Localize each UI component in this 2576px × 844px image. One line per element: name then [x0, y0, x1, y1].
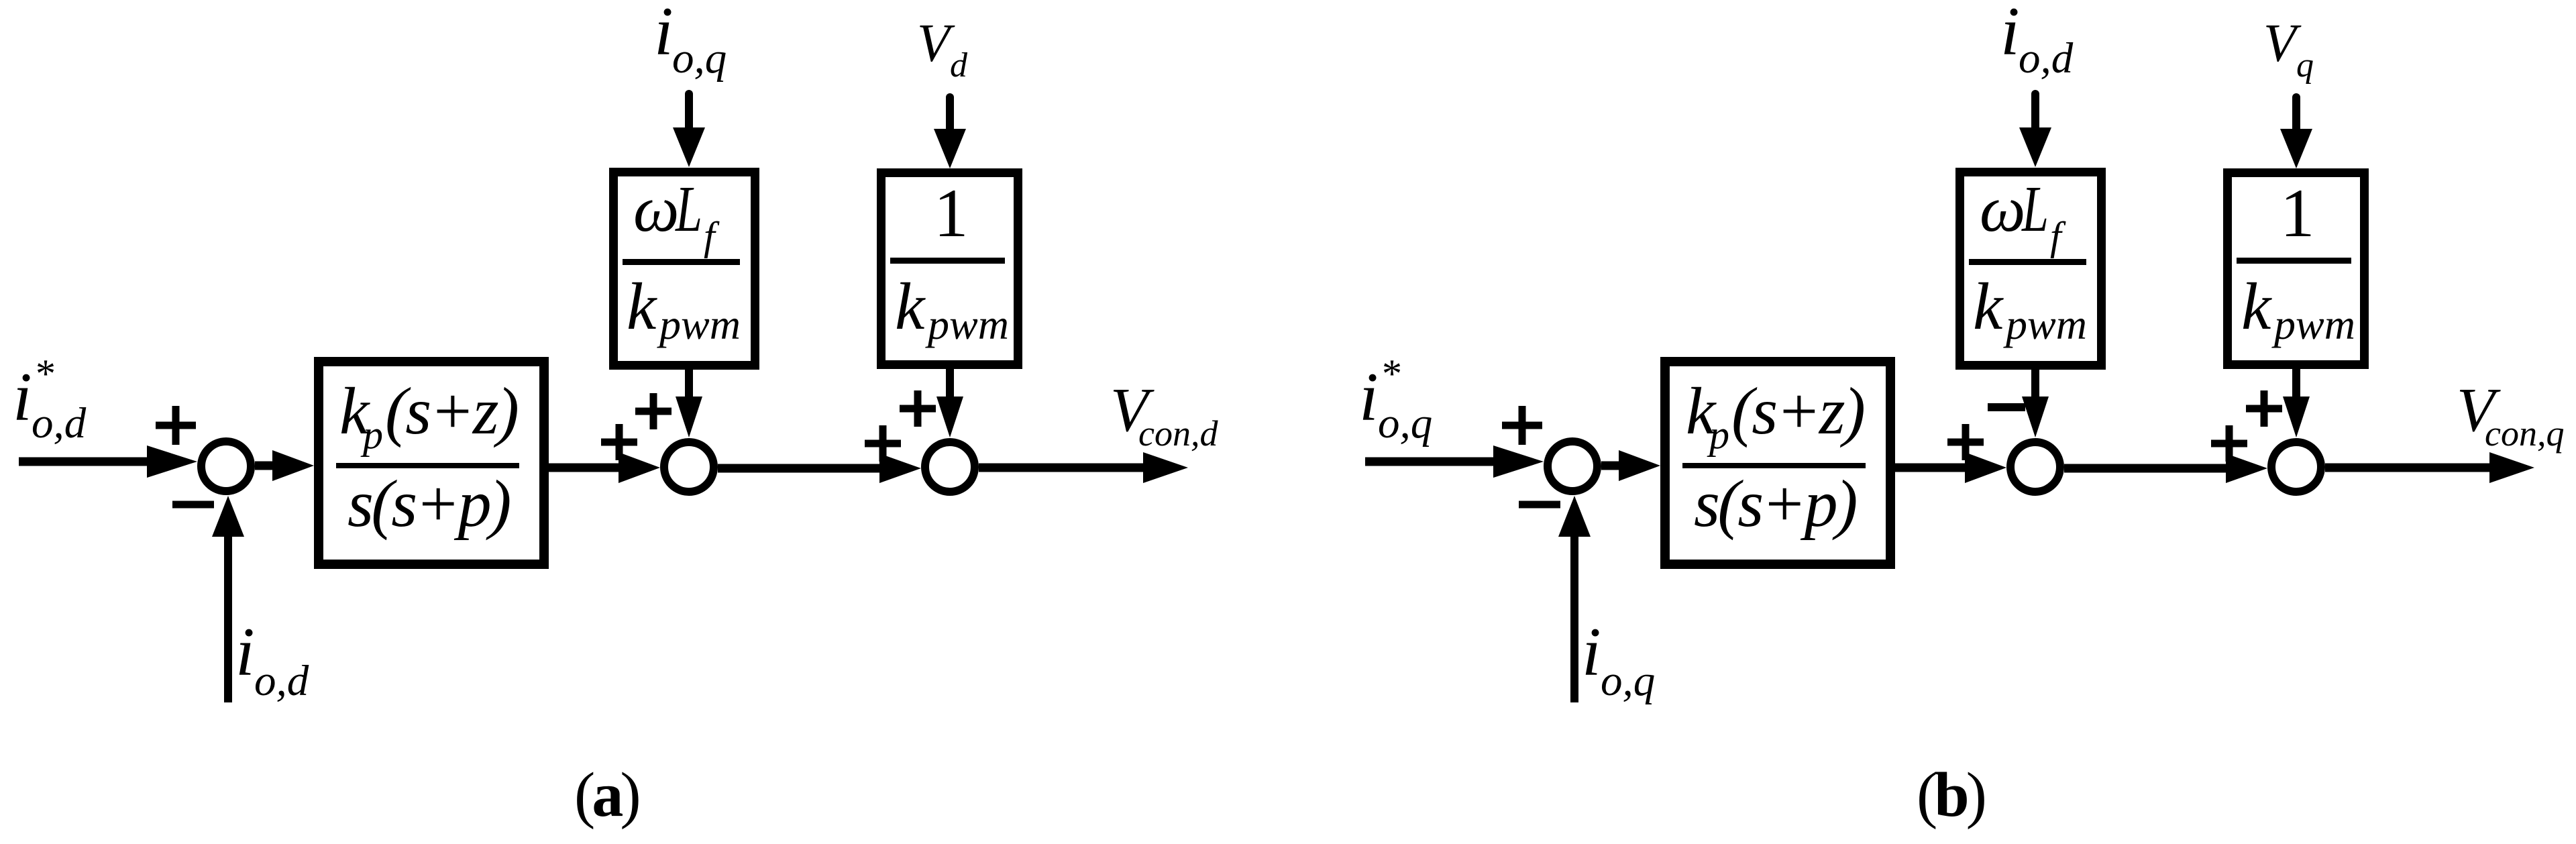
arrowhead decoupling into S2 [676, 397, 702, 437]
wire decoupling block to S2 [2031, 368, 2039, 399]
plus sign upper at summing junction S2 [635, 393, 672, 429]
svg-text:o,d: o,d [32, 399, 87, 447]
summing junction S2a [664, 442, 714, 492]
svg-text:o,d: o,d [2019, 34, 2074, 83]
svg-text:*: * [36, 352, 56, 396]
svg-text:s(s+p): s(s+p) [347, 466, 510, 541]
block Xa decoupling wL_f/k_pwm [614, 172, 755, 366]
summing junction S3a [925, 442, 975, 492]
minus sign at summing junction S1 [172, 501, 214, 509]
arrowhead feedforward into S3 [2283, 397, 2310, 437]
svg-text:ω: ω [633, 173, 680, 245]
arrowhead into summing junction S3 [2226, 454, 2267, 483]
wire decoupling input down [2031, 94, 2039, 131]
arrowhead into feedforward block [934, 129, 966, 168]
wire decoupling input down [685, 94, 693, 131]
wire feedback from below [224, 533, 232, 702]
plus sign upper at summing junction S3 [900, 390, 936, 427]
summing junction S3b [2271, 442, 2321, 492]
svg-text:(a): (a) [574, 760, 639, 830]
svg-text:(b): (b) [1917, 760, 1985, 830]
svg-text:ω: ω [1980, 173, 2026, 245]
svg-text:1: 1 [2280, 175, 2315, 252]
svg-text:k: k [2241, 269, 2272, 344]
svg-text:pwm: pwm [657, 301, 741, 348]
svg-text:p: p [360, 413, 383, 457]
svg-text:o,q: o,q [1378, 399, 1432, 447]
svg-text:1: 1 [934, 175, 969, 252]
plus sign left at summing junction S3 [2211, 425, 2247, 462]
svg-text:L: L [675, 174, 702, 246]
summing junction S1a [201, 441, 251, 491]
arrowhead into feedforward block [2280, 129, 2312, 168]
arrowhead into summing junction S2 [619, 452, 660, 483]
block Fb feedforward 1/k_pwm [2228, 173, 2365, 365]
wire S2 to summing junction S3 [2064, 464, 2232, 473]
wire feedback from below [1570, 533, 1578, 702]
svg-text:i: i [654, 0, 674, 70]
wire feedforward input down [946, 97, 954, 133]
svg-text:pwm: pwm [925, 301, 1009, 348]
wire output [2325, 464, 2495, 472]
wire feedforward block to S3 [2292, 367, 2300, 399]
plus sign at summing junction S1 [156, 406, 196, 445]
svg-text:o,q: o,q [672, 34, 727, 83]
fraction bar of compensator [336, 463, 519, 468]
arrowhead output [2489, 452, 2534, 483]
svg-text:pwm: pwm [2271, 301, 2355, 348]
wire feedforward block to S3 [946, 367, 954, 399]
fraction bar of decoupling block [1969, 259, 2086, 265]
plus sign left at summing junction S3 [865, 425, 901, 462]
wire compensator to summing junction S2 [549, 464, 627, 472]
arrowhead feedback into S1 [1558, 496, 1591, 537]
plus sign at summing junction S1 [1502, 406, 1542, 445]
svg-text:k: k [895, 269, 926, 344]
arrowhead into decoupling block [673, 127, 705, 167]
svg-text:d: d [950, 46, 968, 85]
svg-text:i: i [235, 614, 255, 690]
svg-text:con,d: con,d [1138, 413, 1218, 454]
arrowhead into compensator block [272, 450, 314, 481]
arrowhead into summing junction S1 [147, 445, 197, 478]
summing junction S1b [1548, 441, 1597, 491]
svg-text:k: k [627, 269, 657, 344]
wire compensator to summing junction S2 [1895, 464, 1974, 472]
wire S1 to compensator block [255, 462, 278, 470]
svg-text:k: k [1973, 269, 2004, 344]
wire input reference [1365, 458, 1507, 466]
svg-text:i: i [2000, 0, 2020, 70]
block Gb compensator k_p(s+z)/s(s+p) [1665, 362, 1890, 564]
fraction bar of feedforward block [2237, 258, 2351, 264]
svg-text:L: L [2021, 174, 2049, 246]
arrowhead into decoupling block [2019, 127, 2051, 167]
arrowhead output [1143, 452, 1188, 483]
arrowhead feedback into S1 [212, 496, 244, 537]
svg-text:con,q: con,q [2485, 413, 2564, 454]
wire input reference [19, 458, 161, 466]
svg-text:o,d: o,d [254, 657, 309, 705]
svg-text:*: * [1382, 352, 1402, 396]
minus sign upper at summing junction S2 [1988, 403, 2025, 411]
plus sign left at summing junction S2 [601, 424, 637, 460]
minus sign at summing junction S1 [1519, 501, 1560, 509]
arrowhead feedforward into S3 [936, 397, 963, 437]
arrowhead into compensator block [1619, 450, 1660, 481]
svg-text:o,q: o,q [1601, 657, 1655, 705]
svg-text:i: i [1359, 359, 1379, 435]
wire S2 to summing junction S3 [718, 464, 885, 473]
fraction bar of compensator [1682, 463, 1866, 468]
diagram (a) [13, 0, 1218, 830]
arrowhead decoupling into S2 [2022, 397, 2049, 437]
block Xb decoupling wL_f/k_pwm [1960, 172, 2102, 366]
plus sign upper at summing junction S3 [2246, 390, 2282, 427]
wire decoupling block to S2 [685, 368, 693, 399]
wire S1 to compensator block [1601, 462, 1625, 470]
svg-text:q: q [2296, 46, 2314, 85]
plus sign left at summing junction S2 [1947, 424, 1984, 460]
fraction bar of feedforward block [890, 258, 1005, 264]
wire output [979, 464, 1148, 472]
arrowhead into summing junction S3 [879, 454, 921, 483]
svg-text:(s+z): (s+z) [1731, 374, 1864, 448]
svg-text:pwm: pwm [2003, 301, 2087, 348]
summing junction S2b [2010, 442, 2060, 492]
wire feedforward input down [2292, 97, 2300, 133]
svg-text:i: i [13, 359, 32, 435]
block Ga compensator k_p(s+z)/s(s+p) [319, 362, 544, 564]
arrowhead into summing junction S2 [1965, 452, 2006, 483]
svg-text:(s+z): (s+z) [385, 374, 518, 448]
arrowhead into summing junction S1 [1493, 445, 1544, 478]
diagram (b) [1359, 0, 2564, 830]
block Fa feedforward 1/k_pwm [881, 173, 1018, 365]
svg-text:p: p [1707, 413, 1729, 457]
svg-text:i: i [1582, 614, 1601, 690]
fraction bar of decoupling block [623, 259, 740, 265]
svg-text:s(s+p): s(s+p) [1694, 466, 1856, 541]
